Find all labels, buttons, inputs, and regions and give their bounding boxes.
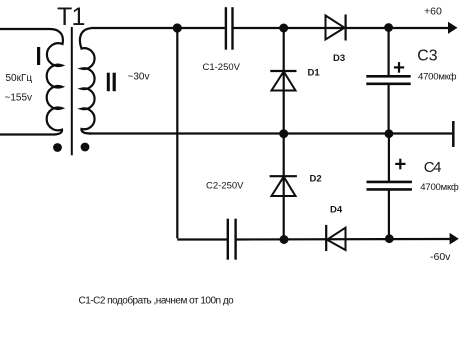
svg-text:D2: D2 <box>310 174 322 185</box>
svg-text:C2-250V: C2-250V <box>206 181 244 192</box>
top rail wire (secondary top to C1) <box>91 27 225 29</box>
svg-text:D1: D1 <box>308 68 321 79</box>
-60v output arrow <box>450 233 459 245</box>
node dot C (top rail / C3 column) <box>384 23 393 32</box>
wire C4 to bottom rail <box>388 190 390 239</box>
winding I label <box>37 47 40 65</box>
capacitor C4 <box>367 181 412 184</box>
mid rail terminal bar <box>452 121 455 147</box>
node dot A (top rail / vertical A) <box>173 23 182 32</box>
capacitor C2 <box>227 219 229 260</box>
transformer T1 secondary winding II <box>80 28 95 133</box>
svg-text:D3: D3 <box>333 53 345 64</box>
svg-text:C1-C2 подобрать ,начнем от 10: C1-C2 подобрать ,начнем от 100n до <box>79 295 235 307</box>
capacitor C3 <box>366 75 410 78</box>
bottom rail wire (corner to C2) <box>177 238 227 240</box>
mid rail wire <box>90 132 452 134</box>
transformer core <box>71 27 73 155</box>
svg-text:D4: D4 <box>330 205 343 216</box>
transformer T1 primary winding I <box>0 29 63 135</box>
top rail wire (C1 to arrow) <box>233 27 449 29</box>
svg-text:C1-250V: C1-250V <box>203 62 241 73</box>
wire C4 column top <box>388 134 390 181</box>
plus sign C3 <box>394 66 404 68</box>
plus sign C4 <box>395 163 405 165</box>
diode D2 <box>270 175 297 177</box>
svg-text:-60v: -60v <box>430 251 451 263</box>
svg-text:C3: C3 <box>417 48 437 65</box>
diode D3 <box>326 16 345 40</box>
node dot B (top rail / D1 column) <box>279 24 288 33</box>
svg-text:~30v: ~30v <box>128 72 150 83</box>
svg-text:~155v: ~155v <box>5 93 33 104</box>
svg-text:4700мкф: 4700мкф <box>418 71 457 82</box>
phase dot secondary <box>81 143 90 152</box>
node dot E (mid rail / C-column) <box>385 129 394 138</box>
svg-text:C4: C4 <box>424 159 441 176</box>
node dot F (bottom rail / D column) <box>280 235 289 244</box>
node dot D (mid rail / D-column) <box>279 129 288 138</box>
wire vertical B (D1/D2 column) <box>283 28 285 240</box>
svg-text:+60: +60 <box>424 6 442 18</box>
bottom rail wire (C2 to arrow) <box>237 238 450 241</box>
node dot G (bottom rail / C column) <box>385 234 394 243</box>
phase dot primary <box>53 143 62 152</box>
svg-text:T1: T1 <box>57 3 85 31</box>
winding II label <box>107 73 110 92</box>
svg-text:4700мкф: 4700мкф <box>420 182 459 193</box>
diode D1 <box>270 70 296 72</box>
wire C3 to mid rail <box>388 85 390 134</box>
wire vertical A (x=177) <box>176 28 178 238</box>
capacitor C1 <box>225 7 227 50</box>
diode D4 <box>325 225 327 251</box>
+60 output arrow <box>448 22 458 34</box>
svg-text:50кГц: 50кГц <box>6 73 33 84</box>
wire C3 column top <box>388 28 390 76</box>
